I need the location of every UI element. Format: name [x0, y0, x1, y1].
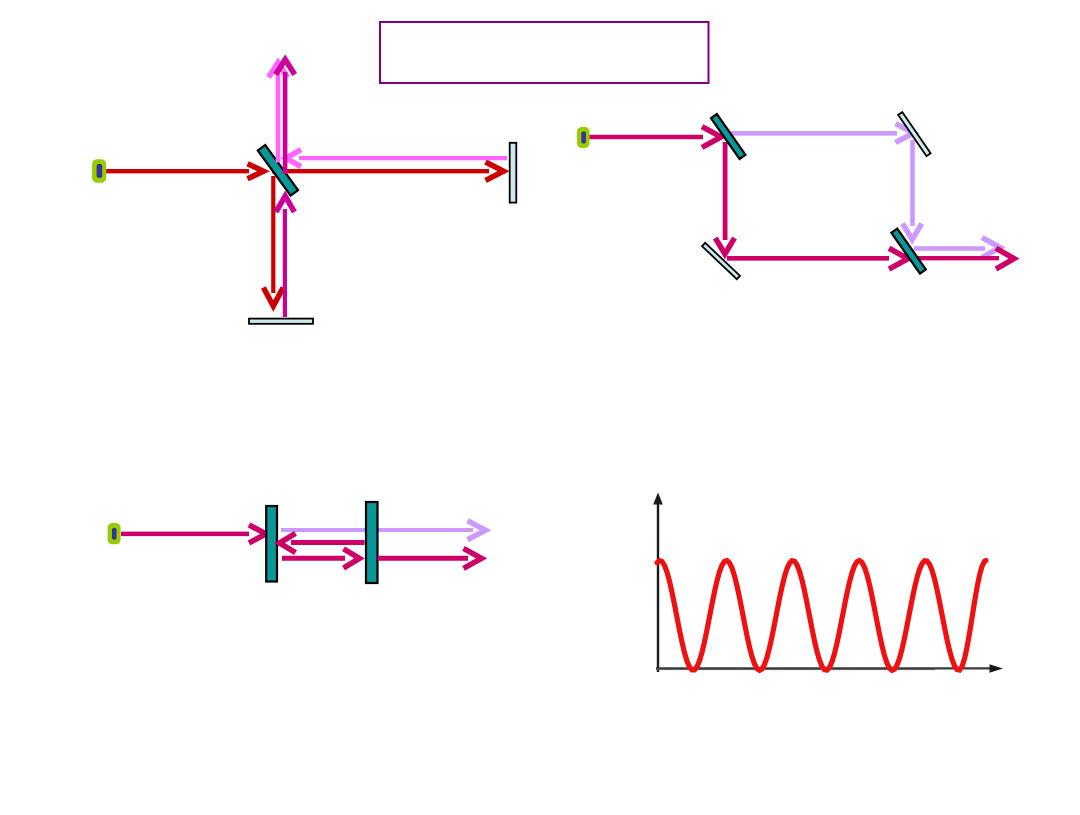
beamsplitter BS1	[258, 145, 298, 196]
wire crimson beam BS2 down to mirror M4	[715, 142, 734, 254]
y axis	[653, 493, 663, 673]
etalon plate P1	[266, 506, 277, 582]
wire crimson output beam	[908, 248, 1014, 269]
title box	[380, 22, 709, 83]
beamsplitter BS2	[711, 114, 745, 159]
wire crimson internal beam rightward	[282, 549, 360, 568]
wire crimson input beam	[121, 525, 266, 543]
wire light purple beam M3 down to BS3	[903, 140, 922, 240]
wire red beam beamsplitter down to bottom mirror	[263, 176, 283, 306]
wire crimson internal beam leftward	[280, 533, 365, 552]
mirror M2 bottom	[249, 319, 313, 324]
mirror M3 top right	[898, 112, 930, 156]
wire red beam beamsplitter to right mirror	[272, 162, 504, 180]
wire light purple output beam	[914, 238, 1000, 258]
etalon plate P2	[366, 502, 378, 583]
wire magenta output beam upward	[276, 60, 295, 175]
mirror M1 right	[510, 143, 517, 203]
beamsplitter BS3	[891, 229, 925, 274]
wire light purple transmitted beam	[281, 521, 486, 540]
wire crimson beam M4 to BS3	[727, 248, 908, 269]
wire crimson output beam	[378, 548, 482, 568]
wire pink output beam upward	[269, 63, 288, 163]
wire crimson beam laser to beamsplitter BS2	[589, 127, 721, 148]
mirror M4 bottom left	[702, 243, 740, 279]
laser L2	[577, 127, 590, 148]
wire light purple beam BS2 to mirror M3	[731, 124, 914, 143]
wire magenta return beam bottom mirror to beamsplitter	[276, 196, 294, 317]
laser L1	[92, 159, 106, 183]
x axis	[656, 664, 1003, 673]
laser L3	[108, 523, 121, 544]
wire red beam laser to beamsplitter	[106, 164, 264, 179]
wire pink return beam right mirror to beamsplitter	[286, 150, 507, 167]
red intensity wave	[657, 561, 986, 671]
